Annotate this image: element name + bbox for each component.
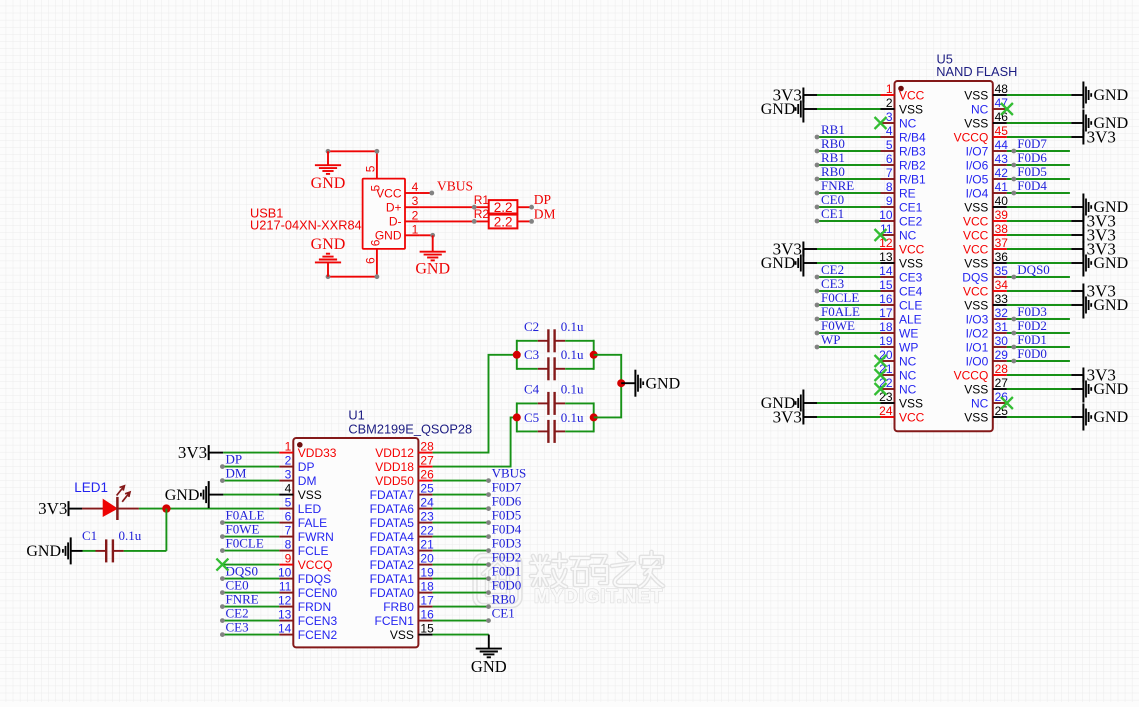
wire U5 pin 36 to GND	[1007, 262, 1084, 264]
wire net F0D2 from U5 pin 31	[1007, 331, 1070, 336]
svg-text:25: 25	[420, 482, 434, 496]
power flag 3V3 (U5 pin 34)	[1083, 282, 1115, 301]
svg-text:VSS: VSS	[964, 256, 988, 270]
wire GND to U5 pin 23	[817, 402, 881, 404]
svg-text:GND: GND	[165, 487, 200, 504]
svg-text:F0D2: F0D2	[492, 550, 522, 565]
svg-text:VDD50: VDD50	[375, 474, 414, 488]
svg-text:VCCQ: VCCQ	[954, 368, 989, 382]
svg-text:FCEN1: FCEN1	[375, 614, 415, 628]
svg-text:CE2: CE2	[899, 214, 923, 228]
wire net F0D1 from U1 pin 19	[433, 576, 491, 581]
wire net F0CLE to U5 pin 16	[815, 303, 881, 308]
svg-text:RB0: RB0	[821, 136, 845, 151]
pin 5 USB1	[363, 151, 377, 178]
svg-text:0.1u: 0.1u	[561, 347, 584, 362]
svg-text:21: 21	[420, 538, 434, 552]
wire net FNRE to U1 pin 12	[220, 604, 279, 609]
svg-text:43: 43	[995, 152, 1009, 166]
svg-text:FDATA1: FDATA1	[370, 572, 415, 586]
wire net WP to U5 pin 19	[815, 345, 881, 350]
svg-text:C5: C5	[524, 410, 539, 425]
pin 19 U1 FDATA1	[370, 566, 434, 586]
svg-text:0.1u: 0.1u	[561, 319, 584, 334]
pin 26 U1 VDD50	[375, 468, 434, 488]
pin 37 U5 VCC	[963, 236, 1008, 256]
svg-text:I/O4: I/O4	[966, 186, 989, 200]
svg-text:30: 30	[995, 334, 1009, 348]
no-connect X U5 pin 20	[875, 355, 887, 367]
svg-text:C1: C1	[82, 528, 97, 543]
wire U5 pin 48 to GND	[1007, 94, 1084, 96]
svg-text:15: 15	[420, 622, 434, 636]
svg-text:GND: GND	[415, 261, 450, 278]
svg-text:12: 12	[278, 594, 292, 608]
svg-text:40: 40	[995, 194, 1009, 208]
pin 16 U5 CLE	[879, 292, 922, 312]
wire net F0D0 from U1 pin 18	[433, 590, 491, 595]
wire net RB1 to U5 pin 4	[815, 135, 881, 140]
svg-text:R1: R1	[474, 193, 490, 207]
svg-text:42: 42	[995, 166, 1009, 180]
power flag 3V3 (U5 pin 38)	[1083, 226, 1115, 245]
svg-text:1: 1	[285, 440, 292, 454]
svg-text:FDATA3: FDATA3	[370, 544, 415, 558]
svg-text:VSS: VSS	[899, 256, 923, 270]
svg-text:FNRE: FNRE	[226, 592, 259, 607]
pin 43 U5 I/O6	[966, 152, 1009, 172]
wire 3V3 to U1 pin1	[223, 452, 279, 454]
svg-text:F0D5: F0D5	[492, 508, 522, 523]
svg-text:17: 17	[420, 594, 434, 608]
pin 24 U5 VCC	[879, 404, 925, 424]
svg-text:3: 3	[886, 110, 893, 124]
svg-text:41: 41	[995, 180, 1009, 194]
svg-text:VSS: VSS	[964, 382, 988, 396]
svg-text:2.2: 2.2	[494, 200, 513, 215]
svg-text:GND: GND	[646, 375, 681, 392]
wire net CE3 to U5 pin 15	[815, 289, 881, 294]
svg-text:F0CLE: F0CLE	[821, 290, 859, 305]
ground GND (U1 pin15)	[471, 635, 507, 676]
wire D+ to R1	[419, 205, 489, 210]
svg-text:FCEN3: FCEN3	[298, 614, 338, 628]
wire net F0D2 from U1 pin 20	[433, 562, 491, 567]
wire net CE0 to U5 pin 9	[815, 205, 881, 210]
capacitor C3	[517, 347, 594, 380]
svg-text:3V3: 3V3	[178, 443, 207, 462]
svg-text:6: 6	[363, 257, 377, 264]
pin 17 U5 ALE	[879, 306, 922, 326]
svg-text:F0D7: F0D7	[492, 480, 522, 495]
svg-text:CE1: CE1	[492, 606, 515, 621]
svg-text:CE3: CE3	[821, 276, 844, 291]
svg-text:VBUS: VBUS	[437, 179, 473, 194]
pin 44 U5 I/O7	[966, 138, 1009, 158]
no-connect X U5 pin 22	[875, 383, 887, 395]
svg-text:22: 22	[420, 524, 434, 538]
svg-text:R/B4: R/B4	[899, 130, 926, 144]
power flag GND (U5 pin 36)	[1083, 250, 1128, 277]
svg-text:7: 7	[886, 166, 893, 180]
svg-text:6: 6	[369, 239, 383, 246]
svg-text:2: 2	[886, 96, 893, 110]
pin 27 U1 VDD18	[375, 454, 434, 474]
wire net DQS0 from U5 pin 35	[1007, 275, 1070, 280]
svg-text:18: 18	[420, 580, 434, 594]
svg-text:VSS: VSS	[964, 298, 988, 312]
wire R2 to DM	[517, 219, 534, 224]
svg-text:VCCQ: VCCQ	[954, 130, 989, 144]
pin 2 USB1 D-	[405, 208, 419, 222]
power flag GND (cap block)	[621, 370, 680, 397]
svg-text:DP: DP	[226, 452, 243, 467]
wire net F0D6 from U1 pin 24	[433, 506, 491, 511]
svg-text:RB0: RB0	[492, 592, 516, 607]
pin 10 U5 CE2	[879, 208, 923, 228]
pin 6 U5 R/B2	[881, 152, 927, 172]
svg-text:VCC: VCC	[963, 228, 989, 242]
svg-text:25: 25	[995, 404, 1009, 418]
svg-text:RB1: RB1	[821, 122, 845, 137]
pin 14 U1 FCEN2	[278, 622, 338, 642]
svg-text:R/B2: R/B2	[899, 158, 926, 172]
wire net DM to U1 pin 3	[220, 478, 279, 483]
svg-text:3V3: 3V3	[1087, 282, 1116, 301]
svg-text:R2: R2	[474, 207, 490, 221]
svg-text:2: 2	[285, 454, 292, 468]
pin 33 U5 VSS	[964, 292, 1008, 312]
svg-text:19: 19	[879, 334, 893, 348]
capacitor C4	[517, 381, 594, 415]
svg-text:F0WE: F0WE	[821, 318, 855, 333]
pin 1 U5 VCC	[881, 82, 925, 102]
svg-text:VDD18: VDD18	[375, 460, 414, 474]
wire GND to U1 pin4	[223, 494, 279, 496]
pin 18 U1 FDATA0	[370, 580, 434, 600]
svg-text:5: 5	[369, 185, 383, 192]
svg-text:VDD12: VDD12	[375, 446, 414, 460]
no-connect X U5 pin 21	[875, 369, 887, 381]
svg-text:3V3: 3V3	[1087, 240, 1116, 259]
svg-text:14: 14	[278, 622, 292, 636]
IC U5 body	[895, 51, 1018, 431]
pin 9 U5 CE1	[881, 194, 923, 214]
svg-text:F0CLE: F0CLE	[226, 536, 264, 551]
ground GND (below USB pin1)	[415, 252, 450, 278]
svg-text:12: 12	[879, 236, 893, 250]
svg-text:4: 4	[886, 124, 893, 138]
pin 47 U5 NC	[971, 96, 1008, 116]
svg-text:NC: NC	[899, 354, 917, 368]
pin 22 U1 FDATA4	[370, 524, 434, 544]
svg-text:5: 5	[886, 138, 893, 152]
svg-text:I/O3: I/O3	[966, 312, 989, 326]
pin 15 U5 CE4	[879, 278, 923, 298]
svg-text:31: 31	[995, 320, 1009, 334]
power flag GND (U5 pin 40)	[1083, 194, 1128, 221]
wire 3V3 to U5 pin 24	[817, 416, 881, 418]
svg-text:27: 27	[995, 376, 1009, 390]
svg-text:F0D4: F0D4	[1017, 178, 1047, 193]
svg-text:9: 9	[285, 552, 292, 566]
IC U1 body	[293, 408, 472, 648]
svg-text:26: 26	[420, 468, 434, 482]
no-connect X U5 pin 26	[1001, 397, 1013, 409]
svg-text:15: 15	[879, 278, 893, 292]
svg-text:F0D5: F0D5	[1017, 164, 1047, 179]
pin 35 U5 DQS	[962, 264, 1008, 284]
power flag 3V3 (U5 pin 12)	[773, 240, 817, 259]
pin 6 USB1	[363, 249, 377, 277]
svg-text:CE4: CE4	[899, 284, 923, 298]
pin 1 USB1 GND	[405, 222, 419, 236]
pin 38 U5 VCC	[963, 222, 1008, 242]
svg-text:FDATA5: FDATA5	[370, 516, 415, 530]
wire net DQS0 to U1 pin 10	[220, 576, 279, 581]
svg-text:NC: NC	[971, 396, 989, 410]
svg-text:WP: WP	[821, 332, 841, 347]
wire net F0D3 from U1 pin 21	[433, 548, 491, 553]
pin 45 U5 VCCQ	[954, 124, 1009, 144]
svg-text:DQS0: DQS0	[1017, 262, 1050, 277]
svg-text:19: 19	[420, 566, 434, 580]
svg-text:GND: GND	[471, 657, 507, 676]
svg-text:ALE: ALE	[899, 312, 922, 326]
junction at C2C3 left	[513, 351, 521, 359]
wire net RB1 to U5 pin 6	[815, 163, 881, 168]
svg-text:VCC: VCC	[899, 410, 925, 424]
svg-text:NC: NC	[899, 368, 917, 382]
svg-text:GND: GND	[1094, 409, 1129, 426]
svg-text:FWRN: FWRN	[298, 530, 334, 544]
pin 2 U5 VSS	[881, 96, 924, 116]
junction GND trunk	[617, 379, 625, 387]
svg-text:F0D1: F0D1	[1017, 332, 1047, 347]
svg-text:VSS: VSS	[964, 116, 988, 130]
svg-text:28: 28	[420, 440, 434, 454]
svg-text:11: 11	[279, 580, 292, 594]
svg-text:F0D7: F0D7	[1017, 136, 1047, 151]
pin 4 U1 VSS	[279, 482, 322, 502]
svg-text:8: 8	[886, 180, 893, 194]
wire 3V3 to U5 pin 12	[817, 248, 881, 250]
svg-text:23: 23	[420, 510, 434, 524]
svg-text:10: 10	[278, 566, 292, 580]
wire net F0WE to U5 pin 18	[815, 331, 881, 336]
wire U1 pin9 (no connect)	[222, 564, 279, 566]
svg-text:0.1u: 0.1u	[561, 410, 584, 425]
svg-text:FDATA2: FDATA2	[370, 558, 415, 572]
svg-text:9: 9	[886, 194, 893, 208]
svg-text:CE2: CE2	[821, 262, 844, 277]
svg-text:3V3: 3V3	[38, 499, 67, 518]
wire net FNRE to U5 pin 8	[815, 191, 881, 196]
svg-text:FDQS: FDQS	[298, 572, 331, 586]
junction LED/C1	[162, 504, 170, 512]
power flag GND (U5 pin 25)	[1083, 404, 1128, 431]
wire net F0D5 from U5 pin 42	[1007, 177, 1070, 182]
svg-text:VDD33: VDD33	[298, 446, 337, 460]
pin 25 U5 VSS	[964, 404, 1008, 424]
pin 7 U5 R/B1	[881, 166, 927, 186]
svg-text:FRDN: FRDN	[298, 600, 331, 614]
svg-text:I/O6: I/O6	[966, 158, 989, 172]
svg-text:34: 34	[995, 278, 1009, 292]
pin 7 U1 FWRN	[279, 524, 334, 544]
svg-text:LED1: LED1	[74, 480, 108, 495]
pin 1 U1 VDD33	[279, 440, 337, 460]
svg-text:CLE: CLE	[899, 298, 922, 312]
svg-text:FALE: FALE	[298, 516, 327, 530]
svg-text:FRB0: FRB0	[383, 600, 414, 614]
svg-text:RE: RE	[899, 186, 916, 200]
pin 22 U5 NC	[879, 376, 917, 396]
no-connect X U1 pin9	[216, 559, 228, 571]
pin 21 U5 NC	[879, 362, 917, 382]
svg-text:29: 29	[995, 348, 1009, 362]
svg-text:DM: DM	[226, 466, 247, 481]
wire net F0D3 from U5 pin 32	[1007, 317, 1070, 322]
pin 12 U1 FRDN	[278, 594, 331, 614]
power flag GND (U5 pin 13)	[761, 250, 817, 277]
wire net CE3 to U1 pin 14	[220, 632, 279, 637]
ground GND (top left)	[311, 151, 346, 192]
wire U5 pin 37 to 3V3	[1007, 248, 1084, 250]
svg-text:C4: C4	[524, 381, 540, 396]
svg-text:FNRE: FNRE	[821, 178, 854, 193]
svg-text:37: 37	[995, 236, 1009, 250]
wire net F0D7 from U5 pin 44	[1007, 149, 1070, 154]
wire net CE1 to U5 pin 10	[815, 219, 881, 224]
pin 46 U5 VSS	[964, 110, 1008, 130]
svg-text:MYDIGIT.NET: MYDIGIT.NET	[534, 587, 663, 608]
power flag GND (U5 pin 23)	[761, 390, 817, 417]
svg-text:4: 4	[412, 180, 419, 194]
wire R1 to DP	[517, 205, 534, 210]
svg-text:NC: NC	[899, 116, 917, 130]
connector USB1	[250, 179, 405, 249]
wire USB pin1 to GND	[419, 233, 435, 252]
svg-text:VSS: VSS	[964, 88, 988, 102]
pin 17 U1 FRB0	[383, 594, 434, 614]
wire parallel rails C4/C5	[517, 402, 594, 432]
svg-text:17: 17	[879, 306, 893, 320]
power flag GND (C1)	[26, 537, 82, 564]
power flag 3V3 (U5 pin 1)	[773, 86, 817, 105]
svg-text:14: 14	[879, 264, 893, 278]
wire U5 pin 46 to GND	[1007, 122, 1084, 124]
svg-text:NAND FLASH: NAND FLASH	[936, 64, 1017, 79]
pin 30 U5 I/O1	[966, 334, 1009, 354]
wire U5 pin 40 to GND	[1007, 206, 1084, 208]
pin 3 USB1 D+	[405, 194, 419, 208]
pin 40 U5 VSS	[964, 194, 1008, 214]
svg-text:24: 24	[879, 404, 893, 418]
svg-text:33: 33	[995, 292, 1009, 306]
svg-text:GND: GND	[26, 543, 61, 560]
svg-text:0.1u: 0.1u	[119, 528, 142, 543]
svg-text:16: 16	[879, 292, 893, 306]
svg-text:8: 8	[285, 538, 292, 552]
wire U5 pin 38 to 3V3	[1007, 234, 1084, 236]
svg-text:DQS: DQS	[962, 270, 988, 284]
svg-text:CBM2199E_QSOP28: CBM2199E_QSOP28	[348, 421, 472, 436]
power flag 3V3 (U1 pin1)	[178, 443, 223, 462]
pin 9 U1 VCCQ	[279, 552, 332, 572]
pin 4 USB1 VCC	[405, 180, 419, 194]
svg-text:3: 3	[285, 468, 292, 482]
ground GND (bottom left, flipped)	[311, 236, 346, 277]
svg-text:F0ALE: F0ALE	[226, 508, 265, 523]
svg-text:GND: GND	[311, 236, 346, 253]
svg-text:DM: DM	[534, 207, 556, 222]
wire net RB0 from U1 pin 17	[433, 604, 491, 609]
power flag GND (U5 pin 46)	[1083, 110, 1128, 137]
capacitor C5	[517, 410, 594, 443]
svg-text:39: 39	[995, 208, 1009, 222]
wire VBUS	[419, 191, 434, 196]
resistor R2	[474, 207, 518, 230]
svg-text:D-: D-	[389, 215, 402, 229]
wire LED to U1 pin5	[139, 508, 279, 510]
svg-text:48: 48	[995, 82, 1009, 96]
wire junction down to C1	[124, 509, 167, 551]
svg-text:2.2: 2.2	[494, 215, 513, 230]
power flag 3V3 (U5 pin 24)	[773, 408, 817, 427]
pin 21 U1 FDATA3	[370, 538, 434, 558]
junction at C2C3 right	[590, 351, 598, 359]
svg-text:FDATA0: FDATA0	[370, 586, 415, 600]
wire U5 pin 28 to 3V3	[1007, 374, 1084, 376]
svg-text:VCC: VCC	[899, 242, 925, 256]
pin 48 U5 VSS	[964, 82, 1008, 102]
wire net RB0 to U5 pin 7	[815, 177, 881, 182]
svg-text:I/O7: I/O7	[966, 144, 989, 158]
svg-text:F0D0: F0D0	[492, 578, 522, 593]
pin 5 U1 LED	[279, 496, 321, 516]
svg-text:I/O1: I/O1	[966, 340, 989, 354]
svg-text:DQS0: DQS0	[226, 564, 259, 579]
svg-text:CE0: CE0	[821, 192, 844, 207]
pin 16 U1 FCEN1	[375, 608, 435, 628]
svg-text:FDATA7: FDATA7	[370, 488, 415, 502]
svg-text:F0D6: F0D6	[492, 494, 522, 509]
svg-text:23: 23	[879, 390, 893, 404]
svg-text:CE2: CE2	[226, 606, 249, 621]
svg-text:VSS: VSS	[964, 410, 988, 424]
pin 10 U1 FDQS	[278, 566, 331, 586]
wire net F0D5 from U1 pin 23	[433, 520, 491, 525]
wire U5 pin 34 to 3V3	[1007, 290, 1084, 292]
svg-text:10: 10	[879, 208, 893, 222]
svg-text:F0D3: F0D3	[1017, 304, 1047, 319]
capacitor C2	[517, 319, 594, 353]
pin 5 U5 R/B3	[881, 138, 927, 158]
svg-text:LED: LED	[298, 502, 322, 516]
svg-text:D+: D+	[386, 201, 402, 215]
svg-text:DP: DP	[298, 460, 315, 474]
pin 29 U5 I/O0	[966, 348, 1009, 368]
power flag 3V3 (U5 pin 28)	[1083, 366, 1115, 385]
wire net CE1 from U1 pin 16	[433, 618, 491, 623]
junction at C4C5 right	[590, 413, 598, 421]
svg-text:VCC: VCC	[899, 88, 925, 102]
svg-text:VCCQ: VCCQ	[298, 558, 333, 572]
wire net F0CLE to U1 pin 8	[220, 548, 279, 553]
svg-text:FDATA4: FDATA4	[370, 530, 415, 544]
svg-text:44: 44	[995, 138, 1009, 152]
